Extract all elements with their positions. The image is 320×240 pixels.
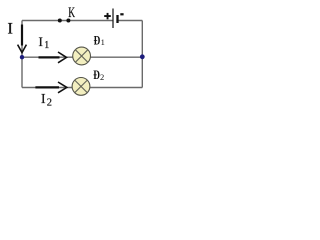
svg-text:2: 2 — [47, 97, 52, 108]
svg-text:I: I — [41, 91, 46, 106]
svg-text:Đ: Đ — [94, 33, 101, 47]
svg-text:1: 1 — [44, 40, 49, 51]
svg-text:1: 1 — [101, 37, 105, 47]
svg-text:K: K — [68, 5, 75, 21]
svg-text:Đ: Đ — [93, 68, 100, 82]
svg-text:2: 2 — [100, 72, 104, 82]
svg-text:I: I — [8, 21, 13, 38]
svg-text:I: I — [39, 34, 43, 49]
